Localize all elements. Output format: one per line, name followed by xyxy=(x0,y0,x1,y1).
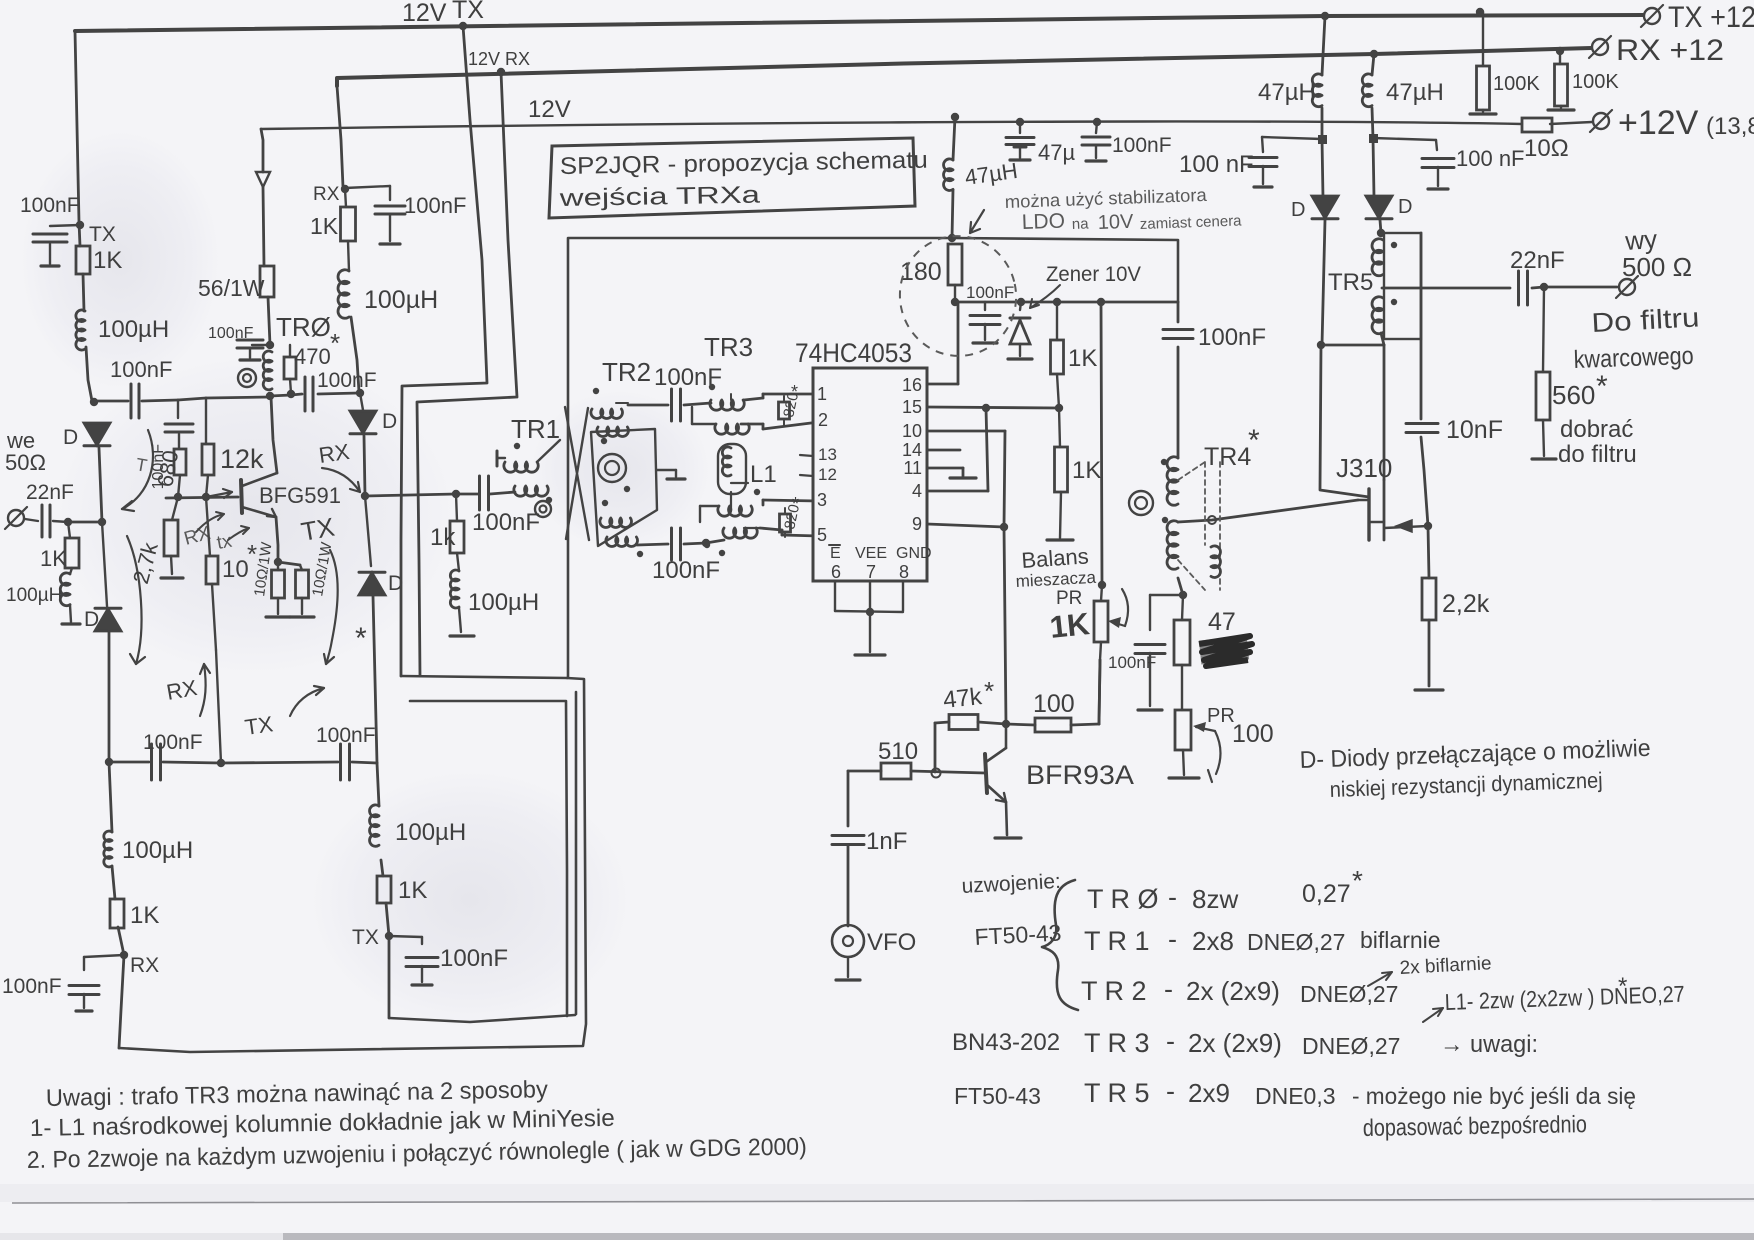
svg-text:50Ω: 50Ω xyxy=(5,450,46,475)
svg-text:T R 5: T R 5 xyxy=(1084,1078,1150,1108)
svg-text:DNEØ,27: DNEØ,27 xyxy=(1247,929,1345,955)
resistor 10R/1W b xyxy=(300,565,302,570)
svg-text:*: * xyxy=(330,328,340,358)
svg-text:L1: L1 xyxy=(750,461,777,488)
ground: TR1 shunt xyxy=(459,608,461,632)
ground: 2.7k xyxy=(171,556,172,574)
svg-text:56/1W: 56/1W xyxy=(198,275,265,301)
svg-text:15: 15 xyxy=(902,397,922,417)
wire: output xyxy=(1532,287,1544,288)
svg-text:TR1: TR1 xyxy=(511,414,560,444)
node: pin15 junctions xyxy=(982,404,990,412)
node: rail2 tap 100K xyxy=(1556,47,1564,55)
wire: 47k left xyxy=(935,722,949,723)
wire: D4 down to TX branch xyxy=(373,596,377,763)
svg-text:6: 6 xyxy=(831,562,841,582)
svg-text:100: 100 xyxy=(1033,690,1075,718)
wire: TR4 tap to gate xyxy=(1178,500,1358,522)
svg-text:VFO: VFO xyxy=(867,929,916,956)
inductor 100uH RX branch xyxy=(104,831,112,867)
node: pot top xyxy=(1098,581,1106,589)
box: title xyxy=(549,138,915,218)
svg-text:12V RX: 12V RX xyxy=(468,49,530,69)
capacitor 100nF top-left xyxy=(50,225,80,226)
svg-text:T R 1: T R 1 xyxy=(1084,926,1150,956)
svg-text:510: 510 xyxy=(878,738,918,765)
svg-text:+12V: +12V xyxy=(1618,104,1699,142)
wire: arrow to 56/1W xyxy=(263,187,264,266)
svg-text:TX: TX xyxy=(243,711,275,740)
svg-text:D: D xyxy=(1291,199,1305,221)
wire: TR4 column top xyxy=(1177,302,1180,458)
terminal: RX +12 output xyxy=(1592,39,1608,55)
svg-text:1K: 1K xyxy=(1068,345,1097,372)
svg-text:*: * xyxy=(1352,865,1363,896)
wire: TX branch down xyxy=(377,763,389,1018)
wire: RX branch to bus xyxy=(351,317,359,392)
box: mixer enclosure xyxy=(568,238,1178,677)
inductor L1 xyxy=(718,444,746,494)
svg-text:TRØ: TRØ xyxy=(276,312,331,342)
node: mid junction xyxy=(361,492,369,500)
svg-text:13: 13 xyxy=(818,445,837,464)
inductor 100uH left rail xyxy=(76,310,85,350)
resistor 1K (from zener rail) xyxy=(1053,298,1061,306)
transformer TR5 frame xyxy=(1384,233,1421,339)
resistor 2.7k xyxy=(172,497,178,520)
node: RX tap xyxy=(120,951,128,959)
diode D6 xyxy=(1366,196,1392,218)
resistor 100K a xyxy=(1482,12,1484,66)
wire: TR2 bottom bus xyxy=(637,544,668,545)
resistor 510 xyxy=(881,763,911,779)
potentiometer PR 100 xyxy=(1175,710,1191,750)
svg-text:E: E xyxy=(830,545,841,562)
svg-text:-: - xyxy=(1166,1026,1175,1056)
arrow RX lower xyxy=(200,664,206,716)
capacitor 100nF on 12V rail xyxy=(1093,118,1101,126)
svg-text:8zw: 8zw xyxy=(1192,884,1238,914)
svg-text:100µH: 100µH xyxy=(98,316,169,343)
svg-text:1K: 1K xyxy=(310,213,339,239)
svg-text:100 nF: 100 nF xyxy=(1456,146,1525,171)
node: input-1K xyxy=(64,518,72,526)
svg-text:100nF: 100nF xyxy=(208,325,254,342)
svg-text:-: - xyxy=(1168,924,1177,954)
svg-text:BFR93A: BFR93A xyxy=(1026,760,1134,790)
svg-text:do filtru: do filtru xyxy=(1558,441,1637,468)
capacitor 22nF output xyxy=(1517,271,1520,305)
capacitor 100nF RX xyxy=(84,955,124,957)
wire: +12V RX rail xyxy=(337,48,1591,86)
transformer TR0 winding xyxy=(263,351,272,390)
svg-text:47µH: 47µH xyxy=(1258,79,1316,106)
svg-text:RX: RX xyxy=(130,954,159,977)
wire: D3 down xyxy=(364,436,365,496)
svg-text:RX: RX xyxy=(317,439,351,468)
wire: 12V rail left terminus down xyxy=(261,129,263,172)
svg-text:PR: PR xyxy=(1056,588,1082,609)
svg-text:100nF: 100nF xyxy=(472,509,540,536)
capacitor 100nF series left bus xyxy=(130,384,133,418)
arrow TX lower xyxy=(290,688,324,716)
node: RX branch tap xyxy=(341,185,349,193)
svg-text:TR3: TR3 xyxy=(704,332,753,362)
svg-text:560: 560 xyxy=(1552,380,1595,410)
wire: base bus xyxy=(166,497,238,498)
svg-text:D: D xyxy=(84,608,99,631)
IC pin12 stub xyxy=(800,475,813,476)
svg-text:5: 5 xyxy=(817,525,827,545)
svg-text:*: * xyxy=(792,494,799,514)
svg-text:47k: 47k xyxy=(942,683,984,714)
svg-text:D: D xyxy=(1398,196,1412,218)
svg-text:1K: 1K xyxy=(40,546,67,571)
node: top rail tap xyxy=(1321,12,1329,20)
dots TR3 xyxy=(709,384,715,390)
svg-text:10: 10 xyxy=(222,556,249,583)
ground: VFO xyxy=(847,957,849,977)
svg-text:22nF: 22nF xyxy=(26,481,74,504)
capacitor 100nF TX xyxy=(389,936,422,937)
capacitor 100nF RX branch xyxy=(345,186,390,188)
diode D1 (we/TX switch upper) xyxy=(84,423,110,445)
node: D5 node xyxy=(1317,341,1325,349)
resistor 1K RX branch xyxy=(110,899,124,928)
core symbol TR1 xyxy=(535,501,551,517)
fence: inner step xyxy=(410,692,576,1016)
svg-text:dopasować bezpośrednio: dopasować bezpośrednio xyxy=(1363,1111,1587,1142)
wire: RX vertical from 12V RX xyxy=(417,72,517,676)
ground: 2.2k xyxy=(1415,688,1443,691)
svg-text:wejścia TRXa: wejścia TRXa xyxy=(558,181,761,212)
svg-text:500 Ω: 500 Ω xyxy=(1622,252,1692,282)
wire: +12V TX top rail xyxy=(75,15,1643,31)
svg-text:100nF: 100nF xyxy=(652,557,720,584)
svg-text:biflarnie: biflarnie xyxy=(1360,927,1441,953)
svg-text:10nF: 10nF xyxy=(1446,416,1503,444)
wire: mid junction right to TR1 bus xyxy=(365,494,456,496)
svg-text:1K: 1K xyxy=(1072,457,1101,484)
inductor 47uH mixer xyxy=(944,159,953,191)
svg-text:T R 3: T R 3 xyxy=(1084,1028,1150,1058)
wire: 100 leads xyxy=(1006,724,1035,725)
dots TR2 xyxy=(593,388,599,394)
node: collector node xyxy=(1002,720,1010,728)
node: supply corner xyxy=(948,234,956,242)
node: lower bus taps xyxy=(217,759,225,767)
svg-text:22nF: 22nF xyxy=(1510,247,1565,274)
wire: pin4 xyxy=(927,490,988,493)
resistor 470* at TR0 xyxy=(289,345,291,357)
svg-text:12k: 12k xyxy=(220,444,264,474)
node: TR0 top xyxy=(266,341,274,349)
arrow: feed down xyxy=(256,172,270,187)
svg-text:DNE0,3: DNE0,3 xyxy=(1255,1083,1336,1109)
svg-text:100µH: 100µH xyxy=(395,819,466,846)
node: TX tap xyxy=(385,932,393,940)
wire: D5 branch to gate xyxy=(1320,345,1369,497)
svg-text:100nF: 100nF xyxy=(440,945,508,972)
resistor 680 xyxy=(178,434,180,449)
box: TR1 enclosure bottom xyxy=(401,676,567,678)
wire: cap to TR3 xyxy=(684,403,711,405)
svg-text:100nF: 100nF xyxy=(966,283,1014,302)
wire: pin9 xyxy=(927,524,1004,527)
diode D4 (TX/RX mid lower) xyxy=(365,496,371,566)
wire: 56/1W to TR0 xyxy=(268,297,270,345)
svg-text:PR: PR xyxy=(1207,705,1235,727)
wire: TR3 to IC pins 1-2 xyxy=(744,398,763,400)
ellipse: zener marker xyxy=(889,225,1027,366)
svg-text:zamiast cenera: zamiast cenera xyxy=(1140,212,1243,233)
wire: RX branch down xyxy=(109,762,124,1048)
wire: TX vertical from 12V TX xyxy=(401,26,487,676)
wire: right vertical xyxy=(1421,233,1429,686)
svg-text:TX: TX xyxy=(452,0,484,24)
wire: pin16 xyxy=(927,383,958,386)
node: base circle xyxy=(932,769,941,778)
node: rail2 tap xyxy=(1370,50,1378,58)
wire: 12V to 47uH mixer xyxy=(953,117,955,160)
terminal: +12V input xyxy=(1593,113,1609,129)
transformer TR2 secondary xyxy=(600,518,632,527)
svg-text:1K: 1K xyxy=(398,877,427,904)
wire: pin10 long vertical xyxy=(927,430,1005,433)
capacitor 100nF TR2-TR3 top xyxy=(670,389,673,421)
capacitor 100nF at TR0 xyxy=(252,344,270,346)
svg-text:74HC4053: 74HC4053 xyxy=(795,338,912,368)
wire: balance pot feed xyxy=(1097,298,1105,306)
svg-text:na: na xyxy=(1072,215,1090,233)
resistor 12k xyxy=(205,398,207,444)
wire: D6 to TR5 xyxy=(1380,220,1381,233)
svg-text:1nF: 1nF xyxy=(866,828,907,855)
capacitor 100nF lower bus b xyxy=(339,744,342,780)
transistor BFR93A xyxy=(985,754,987,793)
resistor 820a xyxy=(779,402,790,419)
resistor 1K input shunt xyxy=(68,522,70,538)
wire: pin14 stub xyxy=(927,449,960,452)
node: base junctions xyxy=(174,493,182,501)
wire: D2 down to RX bus xyxy=(108,630,111,762)
svg-text:100µH: 100µH xyxy=(468,589,539,616)
svg-text:1: 1 xyxy=(817,384,827,404)
arrow: LDO note xyxy=(970,210,984,233)
wire: 510 to base xyxy=(911,771,985,773)
arrow: into base xyxy=(206,492,232,497)
core symbol TR4 xyxy=(1129,491,1153,515)
resistor 10R/1W a xyxy=(277,562,279,570)
capacitor 47u on 12V rail xyxy=(1016,118,1024,126)
IC pins 6-7-8 to ground xyxy=(834,581,836,611)
node: pin9 junction xyxy=(1000,523,1008,531)
core symbol TR2 xyxy=(598,454,626,482)
arrow rx xyxy=(196,514,224,532)
resistor 47k* xyxy=(949,715,978,730)
svg-text:12V: 12V xyxy=(528,96,571,123)
svg-text:16: 16 xyxy=(902,375,922,395)
node: bottom bus xyxy=(702,539,710,547)
svg-text:*: * xyxy=(355,622,367,655)
node: 12V tap xyxy=(951,113,959,121)
svg-text:100nF: 100nF xyxy=(1108,653,1156,672)
svg-text:TR2: TR2 xyxy=(602,357,651,387)
capacitor 100nF tap2 xyxy=(1373,138,1436,140)
svg-text:470: 470 xyxy=(294,344,331,369)
svg-text:9: 9 xyxy=(912,514,922,534)
IC 74HC4053 body xyxy=(813,368,927,581)
inductor 47uH no2 xyxy=(1362,74,1372,107)
svg-text:100nF: 100nF xyxy=(404,193,466,218)
wire: 47uH no2 vertical xyxy=(1372,54,1374,197)
svg-text:GND: GND xyxy=(896,545,932,562)
svg-text:TR4: TR4 xyxy=(1204,443,1251,471)
diode D5 xyxy=(1312,196,1338,218)
arrow TX big curve xyxy=(326,550,338,664)
potentiometer 1K balance xyxy=(1094,601,1108,642)
svg-text:TX: TX xyxy=(352,926,379,949)
svg-text:*: * xyxy=(1596,370,1608,403)
capacitor 100nF series bus2 xyxy=(304,377,307,411)
node: zener rail left xyxy=(951,298,959,306)
wire: D5 down xyxy=(1322,220,1325,345)
resistor 1K TX branch xyxy=(377,876,391,903)
fence: inner bottom xyxy=(389,1015,575,1022)
svg-text:47: 47 xyxy=(1208,608,1236,636)
svg-text:kwarcowego: kwarcowego xyxy=(1573,342,1694,374)
wire: TR5 tap out xyxy=(1382,287,1510,290)
node: TX cap tap xyxy=(76,221,84,229)
svg-text:TX: TX xyxy=(89,223,116,246)
svg-text:100K: 100K xyxy=(1493,73,1540,95)
svg-text:→ uwagi:: → uwagi: xyxy=(1440,1031,1538,1058)
svg-text:2x9: 2x9 xyxy=(1188,1078,1230,1108)
svg-text:2x8: 2x8 xyxy=(1192,926,1234,956)
wire: 47uH to box xyxy=(952,190,953,238)
svg-text:DNEØ,27: DNEØ,27 xyxy=(1302,1033,1400,1059)
svg-text:47µ: 47µ xyxy=(1038,140,1075,165)
wire: zener rail xyxy=(955,301,1178,304)
node: 12V RX tap xyxy=(497,68,505,76)
svg-text:1K: 1K xyxy=(1048,606,1092,645)
svg-text:100µH: 100µH xyxy=(6,585,62,606)
svg-text:100µH: 100µH xyxy=(364,286,438,314)
node: 12V TX tap xyxy=(459,22,467,30)
wire: pin15 xyxy=(927,407,1059,408)
resistor 180 xyxy=(948,244,962,285)
svg-text:TX +12: TX +12 xyxy=(1668,1,1754,34)
transformer TR5 windings xyxy=(1372,239,1383,276)
capacitor 100nF TR2-TR3 bottom xyxy=(670,528,673,560)
inductor 100uH RX branch top xyxy=(348,241,349,271)
svg-text:*: * xyxy=(1618,973,1627,1000)
svg-text:11: 11 xyxy=(903,458,922,478)
diode D2 (we/RX switch lower) xyxy=(102,522,107,606)
transistor BFG591 xyxy=(241,480,242,513)
svg-text:RX +12: RX +12 xyxy=(1616,34,1724,67)
inductor 100uH TR1 shunt xyxy=(457,553,459,571)
capacitor 100nF tap1 xyxy=(1262,137,1322,139)
svg-text:(13,8): (13,8) xyxy=(1706,113,1754,140)
capacitor 100nF TR4 feed xyxy=(1163,328,1193,331)
svg-text:*: * xyxy=(791,382,798,402)
svg-text:100nF: 100nF xyxy=(317,369,377,392)
resistor 1k TR1 shunt xyxy=(456,494,457,521)
svg-text:100: 100 xyxy=(1232,720,1274,748)
terminal: TX +12 output xyxy=(1644,8,1660,24)
wire: BFG591 emitter down xyxy=(276,517,300,565)
node: bus-D1 xyxy=(90,398,98,406)
svg-text:J310: J310 xyxy=(1336,453,1392,483)
svg-text:2x (2x9): 2x (2x9) xyxy=(1186,976,1280,1006)
arrow RX to node xyxy=(322,468,360,492)
wire: BFG591 collector up xyxy=(271,397,277,473)
capacitor 100nF mixer out xyxy=(1150,594,1183,596)
node: source node xyxy=(1424,522,1432,530)
capacitor 100nF above 680 xyxy=(177,400,179,418)
svg-text:100µH: 100µH xyxy=(122,837,193,864)
svg-text:Zener 10V: Zener 10V xyxy=(1046,263,1141,286)
svg-text:-: - xyxy=(1164,974,1173,1004)
resistor 1K left rail xyxy=(76,246,90,274)
resistor 560* xyxy=(1543,287,1544,372)
svg-text:-: - xyxy=(1168,882,1177,912)
resistor 100 osc xyxy=(1035,718,1071,732)
svg-text:100nF: 100nF xyxy=(2,975,62,998)
node: bus-D3 xyxy=(356,389,364,397)
svg-text:T R Ø: T R Ø xyxy=(1087,884,1159,914)
svg-text:dobrać: dobrać xyxy=(1560,416,1633,443)
diode D3 (TX/RX mid upper) xyxy=(360,393,363,410)
transformer TR3 bottom pair xyxy=(718,506,752,516)
wire: input node to D node xyxy=(68,521,102,524)
svg-text:D: D xyxy=(382,410,397,433)
svg-text:RX: RX xyxy=(165,675,200,705)
svg-text:3: 3 xyxy=(817,490,827,510)
svg-text:LDO: LDO xyxy=(1021,210,1065,234)
svg-text:0,27: 0,27 xyxy=(1302,880,1351,908)
fence: outer bottom xyxy=(119,678,586,1052)
terminal: wy output xyxy=(1619,279,1635,295)
transformer TR3 top pair xyxy=(710,400,744,410)
wire: TR5 bottom to J310 drain xyxy=(1381,333,1384,345)
svg-text:100 nF: 100 nF xyxy=(1179,151,1254,178)
svg-text:7: 7 xyxy=(866,562,876,582)
node: input junction xyxy=(98,518,106,526)
svg-text:TX: TX xyxy=(299,512,337,547)
svg-text:- możego nie być jeśli da się: - możego nie być jeśli da się xyxy=(1352,1083,1636,1109)
wire: 47k right xyxy=(978,722,1006,724)
inductor 100uH TX branch xyxy=(370,805,379,846)
svg-text:100nF: 100nF xyxy=(20,194,80,217)
svg-text:14: 14 xyxy=(902,440,922,460)
resistor 1K RX branch top xyxy=(345,189,346,207)
wire: +12V(13,8) rail xyxy=(261,121,1592,129)
svg-text:*: * xyxy=(1248,424,1260,457)
svg-text:1K: 1K xyxy=(93,247,122,274)
node: TR4 bottom xyxy=(1179,591,1187,599)
wire: TR1 bus xyxy=(456,493,478,496)
node: TR0 bottom xyxy=(266,392,274,400)
VFO source xyxy=(832,925,864,957)
svg-text:4: 4 xyxy=(912,481,922,501)
svg-text:10Ω: 10Ω xyxy=(1524,135,1569,162)
svg-text:TR5: TR5 xyxy=(1328,269,1373,296)
svg-text:47µH: 47µH xyxy=(1386,79,1444,106)
scribble blob xyxy=(1199,636,1252,666)
ground: PR100 xyxy=(1169,776,1199,779)
